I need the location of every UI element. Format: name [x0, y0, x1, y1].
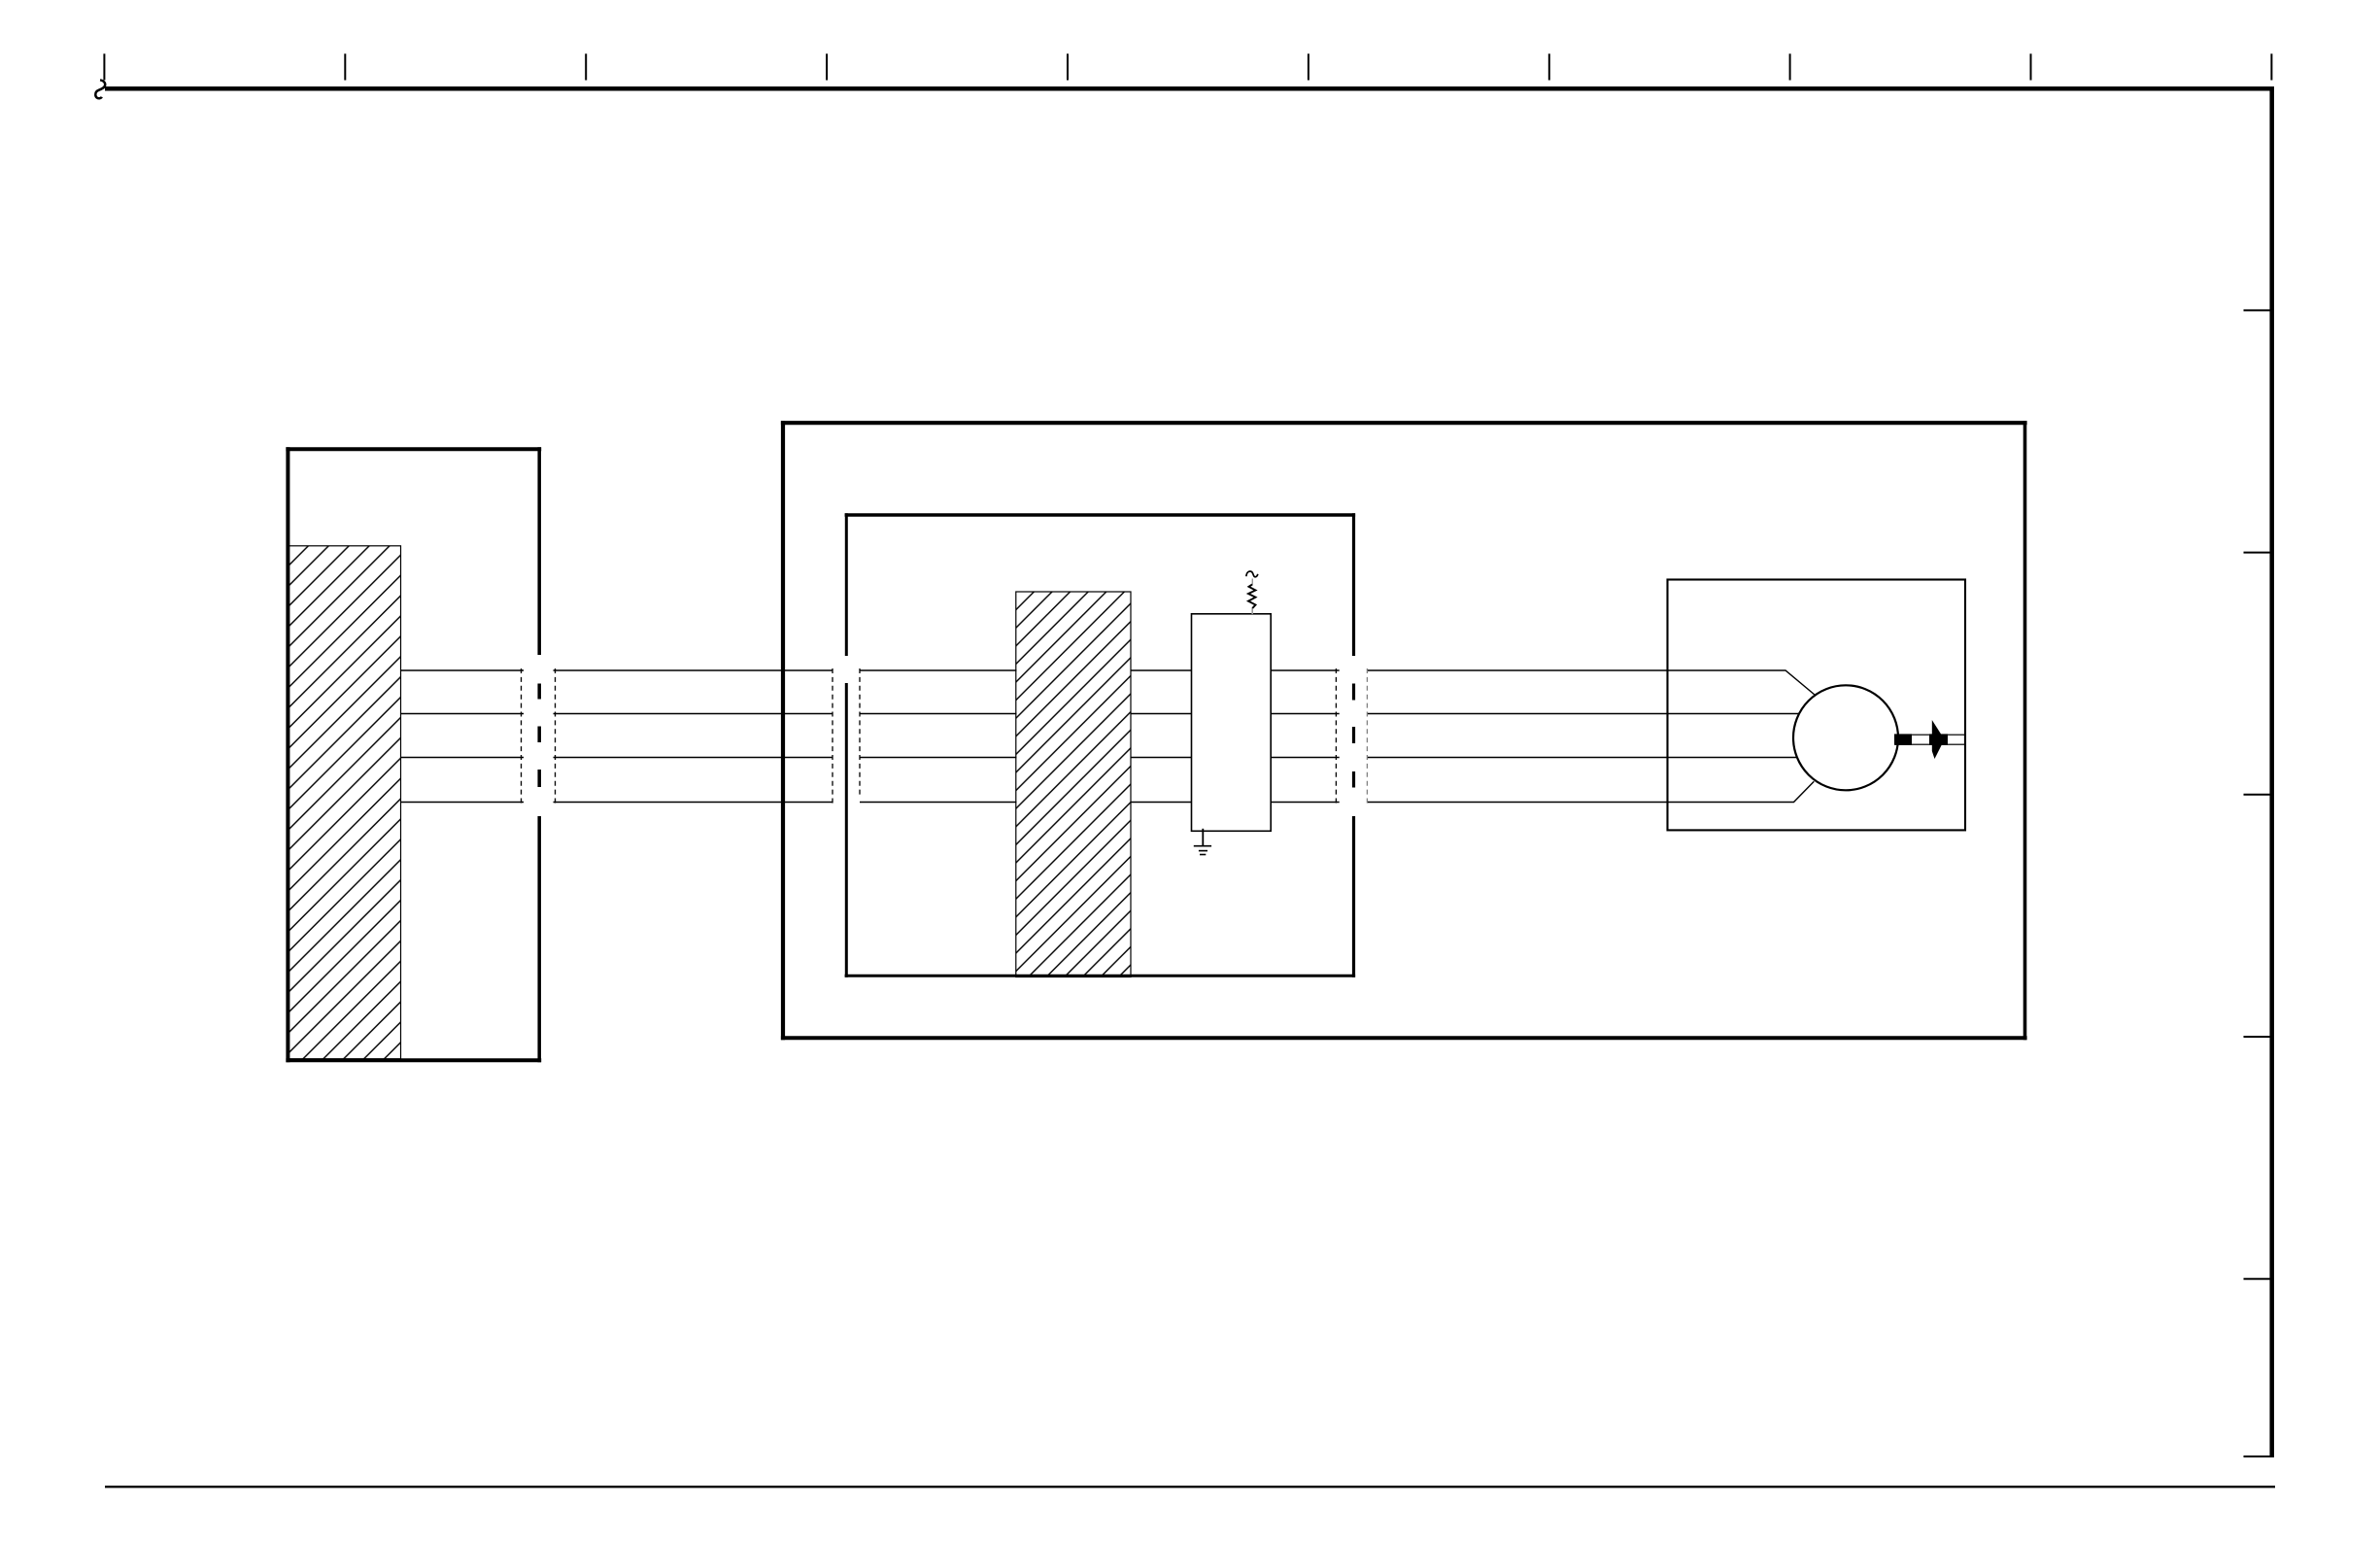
box: outer equipment enclosure — [781, 421, 2027, 1040]
wire: harness segment F (connector 3 to motor) — [1368, 670, 1816, 803]
box: left box right edge with connector dashes — [537, 447, 541, 1062]
connector C1: left half dotted face — [521, 668, 523, 804]
wire: harness segment D (bulkhead to component block) — [1131, 670, 1192, 803]
border: right rule of drawing frame — [2269, 86, 2274, 1457]
connector C2: left half dotted face — [832, 668, 833, 804]
shaft: direction arrow head — [1932, 720, 1945, 759]
tick marks: right edge scale ticks — [2244, 310, 2271, 1456]
box: inner unit box left edge (gap at wire 1) — [845, 513, 848, 977]
box: inner unit box right edge with connector dashes — [1352, 513, 1355, 977]
ground: lead from block bottom — [1202, 829, 1204, 846]
shaft: outline from motor to housing wall — [1896, 735, 1965, 744]
ground: earth symbol bars — [1194, 846, 1211, 855]
box: inner unit box top edge — [845, 513, 1356, 516]
shaft: black segment 1 — [1894, 734, 1912, 744]
wire: harness segment A (4 conductors, hatched block to connector 1) — [401, 670, 525, 803]
component U1: control block rectangle — [1192, 614, 1272, 832]
resistor R1: break squiggle at top — [1246, 571, 1258, 577]
shaft: black segment 2 — [1929, 734, 1948, 744]
box: inner unit box bottom edge — [845, 975, 1356, 977]
wire: harness segment C (connector 2 to hatched bulkhead) — [860, 670, 1017, 803]
wire: harness segment B (connector 1 to connector 2) — [554, 670, 833, 803]
resistor R1: upper lead — [1251, 579, 1253, 585]
border: top rule of drawing frame — [105, 86, 2274, 91]
border: break squiggle at left end of top rule — [95, 80, 105, 98]
wire: harness segment E (component block to connector 3) — [1271, 670, 1340, 803]
connector C3: right half dotted face — [1366, 668, 1368, 804]
box: motor housing — [1668, 580, 1966, 831]
motor M1: circle — [1793, 685, 1898, 790]
connector C3: left half dotted face — [1335, 668, 1337, 804]
hatched block: left connector body — [289, 546, 401, 1059]
resistor R1: lead from block top — [1251, 608, 1253, 615]
connector C2: right half dotted face — [859, 668, 861, 795]
border: bottom rule — [105, 1486, 2275, 1488]
tick marks: top edge scale ticks — [104, 53, 2271, 80]
connector C1: right half dotted face — [555, 668, 557, 804]
resistor R1: zigzag element — [1248, 584, 1256, 608]
box: left component box outline — [286, 447, 541, 1062]
hatched block: bulkhead / grommet inside inner box — [1016, 592, 1131, 977]
